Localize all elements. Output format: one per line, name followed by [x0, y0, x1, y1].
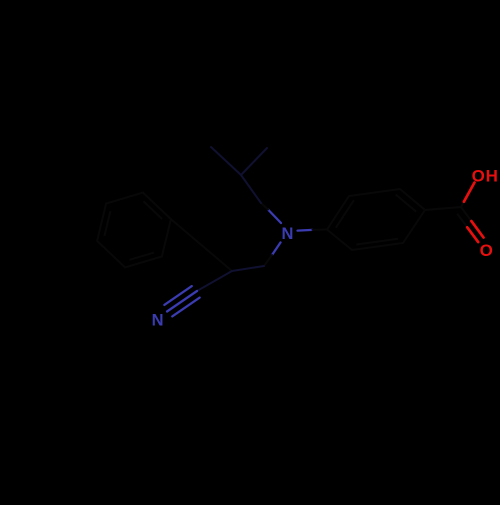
- svg-text:H: H: [486, 167, 498, 186]
- svg-text:N: N: [282, 225, 294, 243]
- svg-text:O: O: [472, 167, 485, 186]
- svg-text:N: N: [152, 312, 164, 330]
- svg-text:O: O: [480, 241, 493, 260]
